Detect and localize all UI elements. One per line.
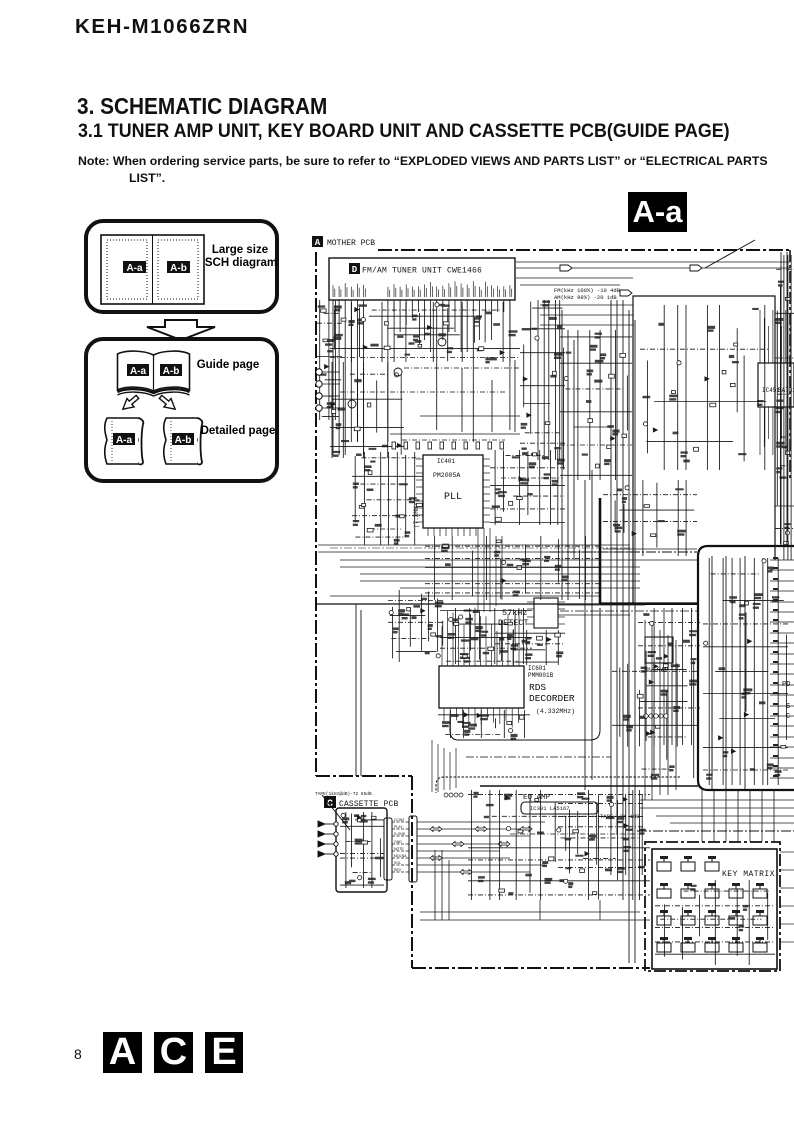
detailed page icon A-b bbox=[164, 418, 203, 464]
bus wire left arm bbox=[316, 603, 600, 605]
test point terminals bbox=[316, 369, 340, 411]
svg-text:TAPE(1kHz@dB)-72 65dB: TAPE(1kHz@dB)-72 65dB bbox=[315, 791, 372, 797]
right edge long verticals bbox=[712, 252, 787, 790]
thick bus wire bbox=[600, 498, 698, 604]
svg-text:RDS: RDS bbox=[529, 682, 546, 693]
svg-text:A-a: A-a bbox=[126, 263, 143, 274]
RDS top parts bbox=[440, 608, 532, 664]
microcontroller display box bbox=[698, 546, 794, 790]
mother side connector strip bbox=[409, 816, 417, 882]
detect support parts bbox=[495, 630, 565, 665]
section block A bbox=[103, 1032, 142, 1073]
svg-text:NV-RAM: NV-RAM bbox=[645, 667, 669, 674]
mid-left VR parts bbox=[388, 590, 445, 662]
svg-text:A-a: A-a bbox=[130, 366, 147, 377]
legend label A-a (large diagram) bbox=[123, 261, 146, 273]
sparse mid wires bbox=[340, 360, 520, 432]
long vertical wires center bbox=[562, 300, 635, 840]
svg-text:REV: REV bbox=[394, 868, 402, 872]
arrow connector symbols bbox=[560, 265, 702, 296]
EQ amp support parts bbox=[468, 790, 650, 900]
svg-text:IC301 LA5167: IC301 LA5167 bbox=[530, 805, 570, 812]
svg-text:NOTE: NOTE bbox=[394, 847, 404, 851]
svg-text:MOTHER PCB: MOTHER PCB bbox=[327, 239, 375, 248]
wires to tuner section right bbox=[516, 262, 790, 325]
wire bus horizontal mid bbox=[318, 545, 697, 596]
RDS decoder pins and wires bbox=[442, 608, 519, 728]
wires box2 to key matrix bbox=[702, 790, 774, 842]
mother PCB boundary right bbox=[789, 250, 791, 480]
chain line above key matrix bbox=[637, 830, 794, 832]
legend label A-b (large diagram) bbox=[167, 261, 190, 273]
legend label A-b (guide page) bbox=[160, 364, 182, 376]
mother PCB boundary cassette jog bbox=[316, 776, 650, 968]
svg-text:PM2005A: PM2005A bbox=[433, 472, 460, 479]
legend box: guide/detailed page bbox=[86, 339, 277, 481]
below PLL wiring bbox=[425, 536, 600, 600]
IC451 pins bbox=[760, 310, 790, 455]
legend label A-a (guide page) bbox=[127, 364, 149, 376]
RDS enclosure rounded bbox=[450, 608, 600, 740]
box1 bottom region bbox=[603, 480, 697, 556]
chain line mid right bbox=[560, 610, 697, 612]
svg-text:A-b: A-b bbox=[170, 263, 187, 274]
box2 pin tick rows bbox=[770, 557, 794, 778]
key matrix boundary bbox=[645, 842, 780, 971]
signal level notes bbox=[554, 287, 621, 301]
thick wire into MCU corner bbox=[480, 785, 698, 787]
FM/AM tuner unit box CWE1466 bbox=[329, 258, 515, 300]
svg-text:SCH diagram: SCH diagram bbox=[205, 257, 277, 269]
sheet label A-a bbox=[628, 192, 687, 232]
second bottom bus bbox=[420, 911, 640, 913]
svg-text:Detailed page: Detailed page bbox=[201, 425, 276, 437]
chain wire below RDS bbox=[466, 756, 611, 758]
IC301 LA5167 bbox=[521, 802, 598, 814]
cassette internal parts bbox=[340, 812, 384, 888]
note line 2 bbox=[129, 171, 165, 185]
section block C bbox=[154, 1032, 193, 1073]
NV-RAM IC bbox=[645, 637, 673, 663]
open book icon bbox=[118, 351, 190, 396]
wires left above EQ bbox=[432, 740, 456, 792]
heading 3.1 bbox=[78, 121, 730, 143]
svg-text:Large size: Large size bbox=[212, 244, 268, 256]
IC 57kHz detector bbox=[534, 598, 558, 628]
box2 interior wiring bbox=[703, 558, 788, 785]
tuner right detail box bbox=[633, 296, 775, 604]
long verticals into key matrix area bbox=[623, 835, 635, 963]
section block E bbox=[205, 1032, 243, 1073]
model title KEH-M1066ZRN bbox=[75, 15, 249, 39]
heading 3. SCHEMATIC DIAGRAM bbox=[77, 93, 327, 120]
left edge components bbox=[317, 300, 342, 420]
pointer line bbox=[322, 795, 350, 830]
svg-text:MOLNA: MOLNA bbox=[394, 854, 407, 858]
RDS bottom parts bbox=[438, 710, 530, 738]
far right verticals bbox=[775, 255, 794, 560]
pointer line to tuner bbox=[705, 240, 755, 268]
node C CASSETTE PCB label bbox=[324, 796, 336, 808]
resistor array row left bbox=[444, 793, 463, 797]
vertical bundle right of RDS bbox=[645, 620, 676, 800]
key switches grid bbox=[657, 856, 767, 952]
dashed bus above EQ bbox=[436, 777, 680, 793]
svg-text:KEY MATRIX: KEY MATRIX bbox=[722, 870, 775, 879]
legend box: large size SCH diagram bbox=[86, 221, 277, 312]
small arrow right bbox=[157, 393, 179, 414]
block arrow down bbox=[147, 320, 215, 340]
op IC401 PM2005A PLL bbox=[423, 455, 483, 528]
left wire bundle parts bbox=[330, 362, 404, 458]
svg-text:IC401: IC401 bbox=[437, 458, 455, 465]
node A MOTHER PCB label bbox=[312, 236, 375, 248]
right of EQ parts LA5167 bbox=[558, 795, 645, 875]
note line 1 bbox=[78, 154, 768, 168]
resistor array row right bbox=[644, 714, 668, 718]
transistor Q301 bbox=[348, 338, 446, 408]
page number 8 bbox=[74, 1046, 82, 1062]
cassette connector strip bbox=[384, 818, 392, 880]
svg-text:PLL: PLL bbox=[444, 492, 462, 503]
chain line into box2 bbox=[550, 551, 697, 553]
cassette PCB box bbox=[336, 808, 387, 892]
detailed page icon A-a bbox=[105, 418, 144, 464]
svg-text:A-b: A-b bbox=[175, 435, 192, 446]
wires right of box2 bottom bbox=[640, 800, 794, 823]
svg-text:D: D bbox=[352, 265, 358, 275]
bottom wires to border bbox=[420, 850, 650, 920]
svg-text:(4.332MHz): (4.332MHz) bbox=[536, 708, 575, 715]
IC451 SA7616 bbox=[758, 363, 794, 407]
NV-RAM support bbox=[638, 608, 700, 745]
svg-text:DECORDER: DECORDER bbox=[529, 693, 575, 704]
wires from tuner unit pins bbox=[333, 300, 510, 455]
svg-text:SOL: SOL bbox=[394, 861, 401, 865]
PLL right support parts bbox=[490, 450, 565, 525]
svg-text:PMM001B: PMM001B bbox=[528, 672, 554, 679]
small arrow left bbox=[119, 393, 141, 414]
box1 interior wiring bbox=[640, 305, 770, 470]
svg-text:IC601: IC601 bbox=[528, 665, 546, 672]
tape head terminals bbox=[318, 821, 338, 857]
57kHz IC pins bbox=[527, 602, 645, 624]
svg-text:FM/AM TUNER UNIT CWE1466: FM/AM TUNER UNIT CWE1466 bbox=[362, 267, 482, 276]
wire chain link bbox=[330, 547, 630, 549]
svg-text:Guide page: Guide page bbox=[197, 359, 260, 371]
svg-text:S-GND: S-GND bbox=[394, 832, 406, 836]
tuner unit pin labels bbox=[333, 281, 512, 297]
between tuner and box1 bbox=[560, 330, 632, 480]
wire drop to cassette bbox=[356, 604, 361, 776]
PLL downstream verticals bbox=[478, 528, 502, 612]
key matrix wiring bbox=[655, 880, 775, 965]
IC601 RDS decoder bbox=[439, 666, 524, 708]
tuner mid components bbox=[520, 300, 565, 460]
svg-text:PLAY: PLAY bbox=[394, 825, 403, 829]
svg-text:A-a: A-a bbox=[116, 435, 133, 446]
svg-text:GND: GND bbox=[394, 840, 402, 844]
svg-text:CCW2: CCW2 bbox=[394, 818, 404, 822]
IC401 pins bbox=[416, 459, 490, 536]
svg-text:FM(kHz 100%) -10 4dB: FM(kHz 100%) -10 4dB bbox=[554, 287, 621, 294]
PLL left support parts bbox=[352, 452, 423, 545]
svg-text:AM(kHz 98%) -20 1dB: AM(kHz 98%) -20 1dB bbox=[554, 294, 617, 301]
svg-text:A: A bbox=[315, 238, 321, 248]
svg-text:A-b: A-b bbox=[163, 366, 180, 377]
resistor row into PLL bbox=[390, 434, 520, 440]
mother PCB boundary top bbox=[378, 249, 790, 251]
component band below tuner bbox=[330, 302, 520, 362]
key matrix right edge stubs bbox=[780, 852, 794, 942]
ribbon wires cassette to mother bbox=[392, 822, 545, 872]
mid link to box2 bbox=[612, 660, 697, 778]
